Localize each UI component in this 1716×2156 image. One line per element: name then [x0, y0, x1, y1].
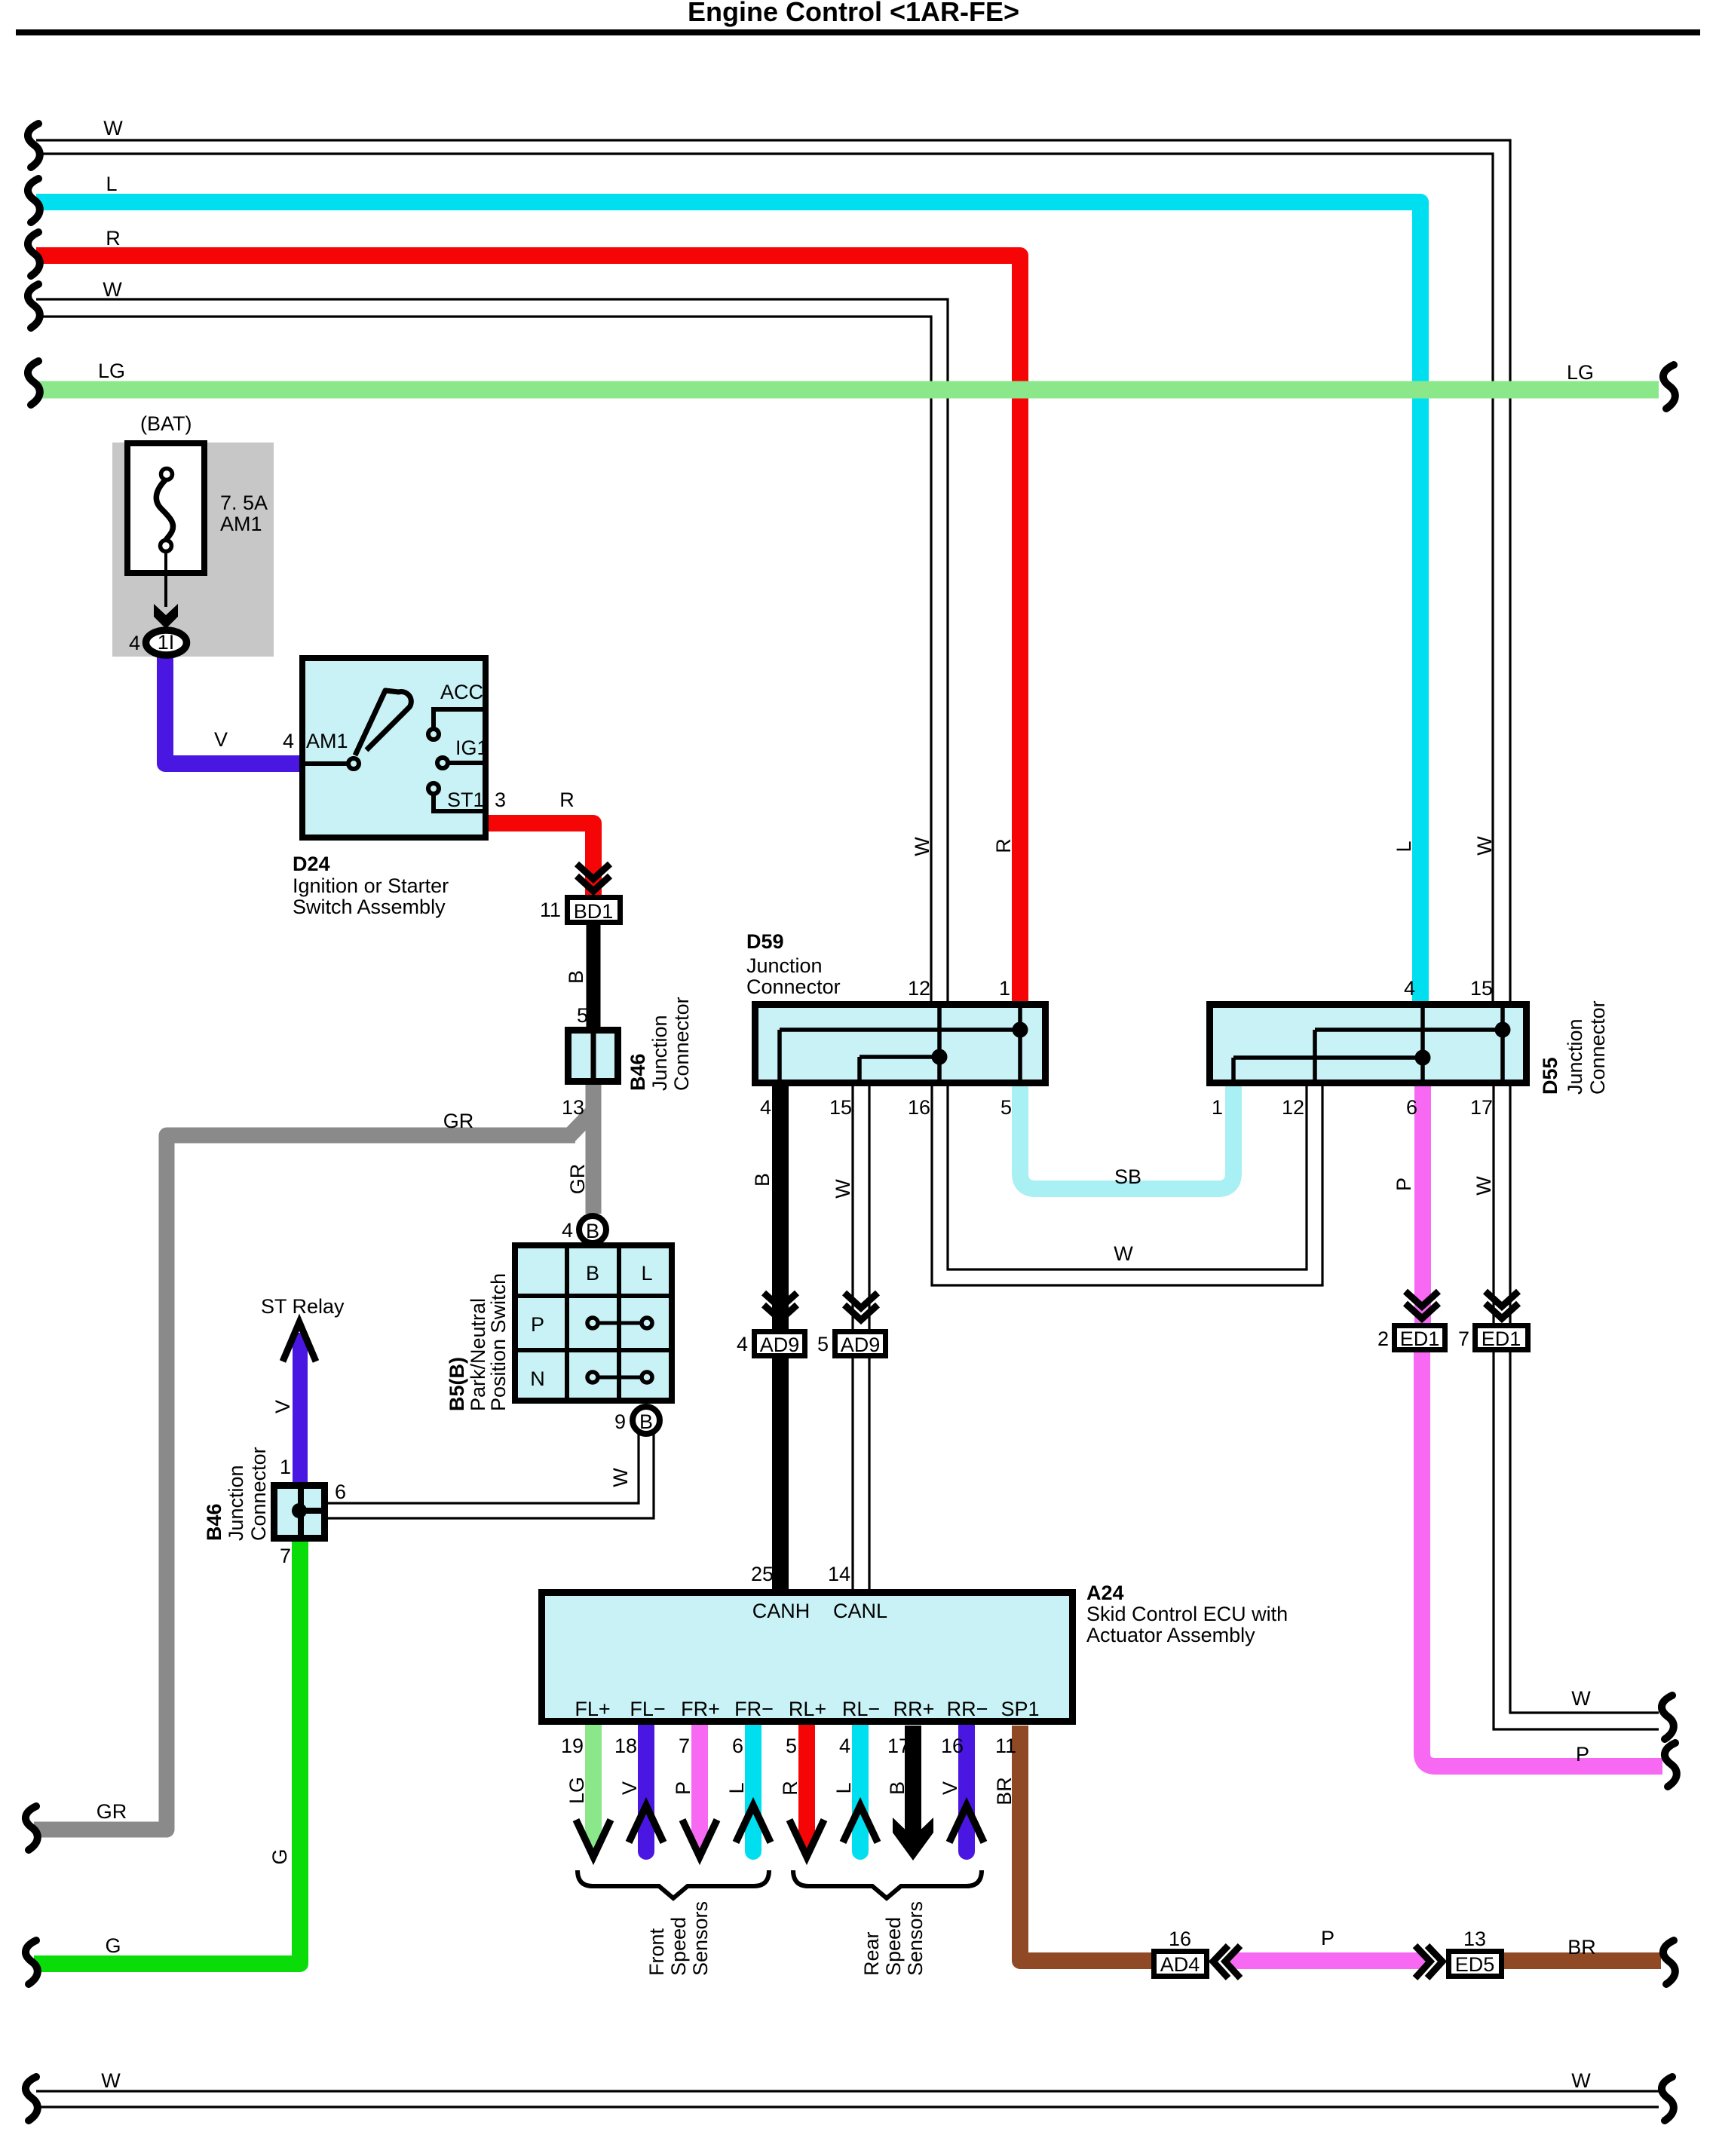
- D55 junction connector box: [1210, 1005, 1527, 1083]
- chevron arrow into ED1 (pin 7): [1485, 1291, 1518, 1318]
- wire W from D59 pin 16 to D55 pin 12: [932, 1086, 1322, 1285]
- svg-text:RL+: RL+: [789, 1698, 826, 1720]
- break symbol LG bus right: [1663, 365, 1675, 409]
- svg-text:18: 18: [614, 1735, 637, 1757]
- svg-text:LG: LG: [98, 360, 125, 382]
- svg-text:RR−: RR−: [947, 1698, 988, 1720]
- svg-text:P: P: [1321, 1927, 1334, 1949]
- svg-text:11: 11: [995, 1735, 1016, 1757]
- svg-text:GR: GR: [443, 1110, 474, 1132]
- D24 ignition switch box: [302, 658, 486, 838]
- svg-text:RL−: RL−: [842, 1698, 880, 1720]
- fuse box (7.5A AM1): [127, 443, 204, 573]
- B5 grid lines: [515, 1245, 672, 1401]
- svg-text:(BAT): (BAT): [140, 412, 192, 435]
- svg-text:R: R: [559, 789, 575, 811]
- wire R red bus (to D59 pin 1): [36, 256, 1020, 1003]
- svg-text:B: B: [565, 970, 587, 984]
- break symbol LG bus left: [28, 361, 40, 405]
- svg-text:L: L: [725, 1782, 748, 1793]
- D55 junction dot pin 4-6: [1415, 1050, 1431, 1066]
- svg-text:V: V: [214, 728, 228, 751]
- svg-text:4: 4: [760, 1096, 771, 1119]
- svg-text:4: 4: [562, 1219, 573, 1242]
- svg-text:1I: 1I: [158, 631, 175, 654]
- svg-text:Actuator Assembly: Actuator Assembly: [1086, 1624, 1255, 1646]
- svg-text:D24: D24: [293, 853, 330, 875]
- break symbol W bottom bus left: [26, 2077, 38, 2121]
- wire BR from ED5 to break: [1503, 1952, 1661, 1969]
- wire W bus 1 (to D55 pin 15): [36, 140, 1510, 1003]
- fuse block grey background: [112, 443, 274, 657]
- chevron arrow FL- up: [629, 1805, 663, 1842]
- svg-text:1: 1: [1212, 1096, 1223, 1119]
- svg-text:B46: B46: [203, 1503, 225, 1541]
- svg-text:AM1: AM1: [306, 730, 348, 752]
- svg-text:5: 5: [786, 1735, 797, 1757]
- D24 IG1 contact circle and line: [437, 758, 448, 768]
- svg-text:17: 17: [887, 1735, 910, 1757]
- wire V A24 RR- pin 16: [958, 1726, 975, 1851]
- D55 internal wiring: [1233, 1005, 1503, 1083]
- svg-text:Switch Assembly: Switch Assembly: [293, 896, 446, 918]
- svg-text:Sensors: Sensors: [904, 1901, 927, 1976]
- wire V from ST Relay arrow to B46: [293, 1333, 308, 1483]
- svg-text:W: W: [609, 1468, 632, 1487]
- svg-text:7: 7: [679, 1735, 690, 1757]
- wire R from D24 ST1 to BD1: [489, 823, 593, 896]
- svg-text:5: 5: [577, 1004, 588, 1027]
- svg-text:W: W: [101, 2069, 121, 2092]
- svg-text:ACC: ACC: [440, 681, 483, 703]
- svg-text:7: 7: [280, 1545, 291, 1567]
- chevron arrow into ED5: [1415, 1946, 1442, 1978]
- svg-text:W: W: [103, 117, 123, 139]
- D24 ST1 contact circle and line: [428, 783, 439, 794]
- chevron arrow into AD9 (pin 4): [764, 1293, 797, 1320]
- fuse element S curve: [156, 479, 173, 541]
- svg-text:W: W: [1472, 1176, 1495, 1196]
- wire L A24 FR- pin 6: [745, 1726, 761, 1851]
- svg-text:6: 6: [732, 1735, 743, 1757]
- svg-text:AM1: AM1: [220, 513, 262, 535]
- svg-text:P: P: [1576, 1743, 1589, 1766]
- svg-text:Ignition or Starter: Ignition or Starter: [293, 874, 449, 897]
- wire B A24 RR+ pin 17: [905, 1726, 921, 1839]
- connector box ED1 pin 7: [1475, 1326, 1528, 1350]
- wire L cyan bus (to D55 pin 4): [36, 202, 1420, 1003]
- break symbol W right (ED1-7 wire): [1662, 1695, 1674, 1739]
- B5 N row contacts: [593, 1376, 647, 1380]
- fuse element top circle: [161, 469, 173, 480]
- fuse element bottom circle: [161, 541, 172, 552]
- svg-text:SP1: SP1: [1000, 1698, 1039, 1720]
- wire W from AD9 to A24 pin 14 CANL: [853, 1358, 869, 1590]
- svg-text:4: 4: [737, 1333, 748, 1355]
- svg-text:ED1: ED1: [1400, 1328, 1440, 1350]
- svg-text:Skid Control ECU with: Skid Control ECU with: [1086, 1603, 1288, 1625]
- svg-text:16: 16: [941, 1735, 964, 1757]
- svg-text:Rear: Rear: [860, 1931, 883, 1976]
- connector box AD4 pin 16: [1154, 1952, 1207, 1977]
- connector ellipse 1I: [146, 630, 187, 655]
- svg-text:Engine Control <1AR-FE>: Engine Control <1AR-FE>: [688, 0, 1019, 27]
- solid arrow RR+ down: [893, 1818, 933, 1860]
- svg-text:L: L: [641, 1262, 652, 1285]
- svg-text:B: B: [639, 1410, 653, 1433]
- svg-text:W: W: [1571, 2069, 1591, 2092]
- svg-text:B46: B46: [627, 1053, 649, 1091]
- break symbol W bus2 left: [28, 284, 40, 328]
- wire GR branch diagonal: [569, 1111, 593, 1136]
- svg-text:AD9: AD9: [841, 1334, 881, 1356]
- wire V from fuse to D24 AM1: [165, 655, 299, 764]
- wire B from BD1 to B46: [587, 925, 601, 1027]
- svg-text:5: 5: [1000, 1096, 1012, 1119]
- svg-text:Connector: Connector: [1586, 1000, 1609, 1095]
- svg-text:5: 5: [817, 1333, 829, 1355]
- svg-text:ST Relay: ST Relay: [261, 1295, 345, 1318]
- D24 ACC contact line and circle: [434, 709, 486, 727]
- svg-text:B5(B): B5(B): [446, 1357, 468, 1411]
- svg-text:D55: D55: [1539, 1057, 1561, 1095]
- svg-text:Junction: Junction: [746, 954, 823, 977]
- svg-text:6: 6: [335, 1481, 346, 1503]
- svg-text:LG: LG: [565, 1777, 588, 1804]
- D55 junction dot pin 15-17: [1495, 1022, 1511, 1038]
- B46 lower divider vertical: [298, 1486, 304, 1538]
- svg-text:25: 25: [751, 1563, 774, 1585]
- svg-text:L: L: [832, 1782, 855, 1793]
- svg-text:7: 7: [1458, 1328, 1469, 1350]
- svg-text:R: R: [992, 838, 1015, 853]
- break symbol W bus1 left: [28, 124, 40, 167]
- svg-text:15: 15: [829, 1096, 852, 1119]
- svg-text:AD9: AD9: [760, 1334, 800, 1356]
- svg-text:15: 15: [1470, 977, 1493, 1000]
- chevron arrow into AD9 (pin 5): [844, 1293, 878, 1320]
- svg-text:Speed: Speed: [667, 1917, 690, 1976]
- chevron arrow FR+ down: [682, 1820, 717, 1857]
- svg-text:B: B: [586, 1220, 599, 1242]
- svg-text:3: 3: [495, 789, 506, 811]
- D59 junction dot pin 12-16: [932, 1049, 948, 1065]
- svg-text:Speed: Speed: [882, 1917, 905, 1976]
- B46 lower divider horizontal right half: [301, 1508, 324, 1514]
- wire R A24 RL+ pin 5: [798, 1726, 815, 1844]
- svg-text:R: R: [779, 1781, 801, 1796]
- svg-text:ED1: ED1: [1482, 1328, 1521, 1350]
- svg-text:19: 19: [561, 1735, 584, 1757]
- svg-text:Park/Neutral: Park/Neutral: [467, 1298, 489, 1411]
- break symbol L bus left: [28, 179, 40, 222]
- svg-text:13: 13: [562, 1096, 584, 1119]
- svg-text:A24: A24: [1086, 1582, 1124, 1604]
- svg-text:G: G: [105, 1934, 121, 1957]
- wire BR A24 SP1 pin 11 to AD4: [1020, 1726, 1152, 1961]
- svg-text:P: P: [531, 1313, 544, 1336]
- B5(B) park/neutral position switch box: [515, 1245, 672, 1401]
- wire B from D59 pin 4 to AD9: [772, 1086, 789, 1330]
- break symbol W bottom bus right: [1662, 2077, 1674, 2121]
- fuse lead line down: [164, 552, 167, 607]
- svg-text:6: 6: [1406, 1096, 1417, 1119]
- wire P from ED1 down and right to break: [1422, 1352, 1662, 1766]
- svg-text:Front: Front: [645, 1928, 668, 1976]
- svg-text:P: P: [1393, 1178, 1415, 1191]
- wire SB from D59 pin 5 to D55 pin 1: [1020, 1086, 1233, 1189]
- wire LG bus: [36, 381, 1659, 399]
- svg-text:FR−: FR−: [734, 1698, 774, 1720]
- chevron arrow into ED1 (pin 2): [1405, 1291, 1439, 1318]
- svg-text:CANH: CANH: [752, 1600, 811, 1622]
- svg-text:4: 4: [1404, 977, 1415, 1000]
- connector box BD1 pin 11: [568, 898, 621, 923]
- chevron arrow RL- up: [843, 1805, 878, 1842]
- svg-text:B: B: [751, 1173, 774, 1187]
- connector box AD9 pin 5: [835, 1332, 886, 1356]
- B5 P row contacts: [593, 1321, 647, 1325]
- svg-text:IG1: IG1: [455, 737, 489, 759]
- svg-text:V: V: [618, 1781, 641, 1795]
- break symbol P right: [1665, 1743, 1677, 1787]
- svg-text:FL+: FL+: [575, 1698, 610, 1720]
- svg-text:W: W: [103, 278, 122, 301]
- svg-text:2: 2: [1377, 1328, 1389, 1350]
- svg-text:W: W: [1114, 1242, 1133, 1265]
- connector box ED5 pin 13: [1449, 1952, 1502, 1977]
- svg-text:Sensors: Sensors: [689, 1901, 712, 1976]
- chevron arrow into BD1: [577, 864, 610, 891]
- svg-text:CANL: CANL: [833, 1600, 887, 1622]
- A24 skid control ECU box: [542, 1593, 1073, 1722]
- connector box AD9 pin 4: [755, 1332, 805, 1356]
- svg-text:P: P: [672, 1781, 694, 1795]
- chevron arrow FR- up: [736, 1805, 771, 1842]
- svg-text:W: W: [911, 837, 933, 856]
- svg-text:17: 17: [1470, 1096, 1493, 1119]
- break symbol G bottom left: [26, 1940, 38, 1984]
- wire L A24 RL- pin 4: [852, 1726, 869, 1851]
- wire GR horizontal and down left side to break: [34, 1135, 575, 1830]
- wire P A24 FR+ pin 7: [691, 1726, 708, 1844]
- svg-text:W: W: [832, 1179, 854, 1199]
- chevron arrow FL+ down: [576, 1820, 611, 1857]
- svg-text:12: 12: [908, 977, 930, 1000]
- svg-text:Connector: Connector: [670, 997, 693, 1091]
- wire P from AD4 to ED5: [1227, 1952, 1429, 1969]
- svg-text:Junction: Junction: [648, 1015, 671, 1091]
- D59 junction dot pin 1-5: [1013, 1022, 1028, 1038]
- svg-text:RR+: RR+: [893, 1698, 935, 1720]
- svg-text:1: 1: [999, 977, 1010, 1000]
- chevron arrow RL+ down: [789, 1820, 824, 1857]
- wire LG A24 FL+ pin 19: [585, 1726, 602, 1844]
- svg-text:4: 4: [129, 632, 140, 654]
- svg-text:N: N: [530, 1367, 545, 1390]
- svg-text:11: 11: [540, 899, 561, 921]
- svg-text:FR+: FR+: [681, 1698, 720, 1720]
- svg-text:BR: BR: [993, 1777, 1016, 1805]
- brace front speed sensors: [578, 1870, 769, 1898]
- D24 AM1 contact line: [299, 761, 348, 766]
- svg-text:1: 1: [280, 1456, 291, 1478]
- svg-text:Junction: Junction: [225, 1465, 247, 1541]
- svg-text:L: L: [1393, 841, 1415, 852]
- svg-text:V: V: [271, 1400, 294, 1413]
- wire W bottom bus: [36, 2091, 1659, 2107]
- svg-text:16: 16: [1169, 1928, 1191, 1950]
- svg-text:13: 13: [1463, 1928, 1486, 1950]
- chevron arrow RR- up: [949, 1805, 984, 1842]
- svg-text:12: 12: [1282, 1096, 1304, 1119]
- svg-text:LG: LG: [1567, 361, 1594, 384]
- break symbol GR bottom left: [26, 1806, 38, 1850]
- D24 key lever: [355, 691, 411, 755]
- wire W from D59 pin 15 to AD9: [853, 1086, 869, 1330]
- svg-text:D59: D59: [746, 930, 784, 953]
- svg-text:W: W: [1571, 1687, 1591, 1710]
- wire W bus 2 (to D59 pin 12): [36, 299, 948, 1003]
- svg-text:Connector: Connector: [746, 975, 841, 998]
- svg-text:7. 5A: 7. 5A: [220, 492, 268, 514]
- wire V A24 FL- pin 18: [638, 1726, 654, 1851]
- svg-text:GR: GR: [97, 1800, 127, 1823]
- ST Relay arrow: [283, 1322, 316, 1361]
- chevron arrow into AD4: [1213, 1946, 1240, 1978]
- wire W from ED1 down and right to break: [1494, 1352, 1659, 1729]
- svg-text:W: W: [1473, 836, 1496, 856]
- svg-text:14: 14: [828, 1563, 850, 1585]
- svg-text:FL−: FL−: [630, 1698, 665, 1720]
- svg-text:B: B: [886, 1781, 909, 1795]
- D59 internal wiring: [780, 1005, 1020, 1083]
- svg-text:B: B: [586, 1262, 599, 1285]
- brace rear speed sensors: [793, 1870, 982, 1898]
- wire GR from B46 pin 13 down to circle B: [586, 1083, 602, 1214]
- D59 junction connector box: [755, 1005, 1046, 1083]
- svg-text:4: 4: [839, 1735, 850, 1757]
- title bar: [16, 29, 1700, 35]
- svg-text:BD1: BD1: [574, 900, 614, 923]
- svg-text:L: L: [106, 173, 117, 195]
- svg-text:V: V: [939, 1781, 961, 1795]
- svg-text:ST1: ST1: [447, 789, 485, 811]
- svg-text:16: 16: [908, 1096, 930, 1119]
- svg-text:R: R: [106, 227, 121, 250]
- svg-text:Junction: Junction: [1564, 1018, 1586, 1095]
- node circle B pin 4 of B5: [579, 1216, 606, 1243]
- break symbol BR right: [1663, 1940, 1675, 1984]
- svg-text:Position Switch: Position Switch: [487, 1273, 510, 1411]
- svg-text:AD4: AD4: [1160, 1953, 1200, 1976]
- wire B from AD9 to A24 pin 25 CANH: [772, 1358, 789, 1590]
- B46 upper divider: [591, 1031, 596, 1081]
- svg-text:G: G: [268, 1848, 291, 1864]
- svg-text:BR: BR: [1567, 1936, 1596, 1958]
- connector box ED1 pin 2: [1395, 1326, 1445, 1350]
- svg-text:4: 4: [283, 730, 294, 752]
- wire G from B46 down to break bottom left: [34, 1541, 300, 1964]
- svg-text:9: 9: [614, 1410, 626, 1433]
- node circle B pin 9 of B5: [633, 1407, 660, 1434]
- B46 junction connector (upper) box: [568, 1031, 618, 1082]
- svg-text:Connector: Connector: [247, 1447, 270, 1541]
- wire W from D55 pin 17 to ED1: [1494, 1086, 1510, 1324]
- svg-text:SB: SB: [1114, 1165, 1141, 1188]
- svg-text:GR: GR: [566, 1164, 589, 1195]
- D24 lever pivot circle: [348, 758, 359, 769]
- wire P from D55 pin 6 to ED1: [1414, 1086, 1431, 1324]
- break symbol R bus left: [28, 232, 40, 276]
- B46 lower junction dot: [292, 1503, 307, 1518]
- B46 junction connector (lower) box: [274, 1486, 325, 1539]
- solid arrow into connector 1I: [154, 604, 178, 629]
- svg-text:ED5: ED5: [1455, 1953, 1495, 1976]
- wire W from B5 pin 9 to B46: [327, 1434, 654, 1518]
